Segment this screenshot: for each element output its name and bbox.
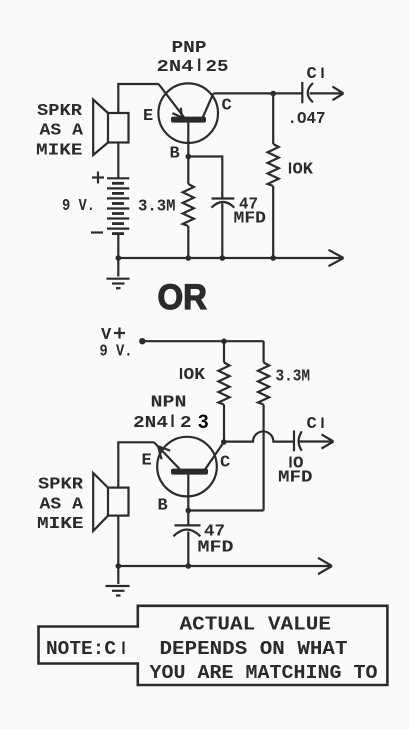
svg-text:OR: OR (158, 278, 208, 317)
wire speaker top to emitter (118, 442, 154, 487)
wire C1 to arrow (bottom output) (300, 440, 333, 442)
label + (battery top) (92, 172, 104, 184)
svg-text:3.3M: 3.3M (138, 198, 176, 217)
speaker SPKR (bottom) (93, 473, 128, 531)
label C1 (top) (307, 65, 323, 84)
ground (top) (107, 258, 130, 288)
transistor Q1 base lead (187, 123, 189, 157)
junction dot 3.3M/rail (186, 255, 192, 261)
wire speaker bottom to battery (117, 143, 119, 179)
svg-text:25: 25 (206, 58, 229, 77)
speaker SPKR (top) (93, 100, 128, 156)
svg-text:MFD: MFD (198, 539, 234, 558)
svg-text:ACTUAL VALUE: ACTUAL VALUE (180, 614, 332, 636)
wire base to 47MFD (187, 511, 189, 526)
svg-text:C: C (307, 415, 317, 434)
svg-text:3.3M: 3.3M (276, 368, 311, 387)
junction dot collector/10K (221, 439, 227, 445)
wire speaker top to emitter corner (118, 84, 158, 113)
svg-text:DEPENDS ON WHAT: DEPENDS ON WHAT (160, 638, 348, 660)
transistor Q2 circle (157, 437, 217, 497)
svg-text:MFD: MFD (278, 469, 313, 488)
resistor 3.3M (bottom) (258, 363, 269, 405)
svg-text:3: 3 (198, 412, 209, 433)
wire C1 to arrow (top output) (310, 92, 343, 94)
svg-text:PNP: PNP (172, 39, 207, 58)
wire base to 3.3M line (188, 509, 263, 511)
arrow (top output) (333, 87, 344, 101)
label V + (101, 326, 125, 345)
junction dot 47MFD/rail (220, 255, 226, 261)
svg-text:NOTE:C: NOTE:C (46, 638, 116, 660)
svg-text:YOU ARE MATCHING TO: YOU ARE MATCHING TO (150, 662, 378, 684)
label NOTE: C1 (46, 638, 124, 660)
ground (bottom) (106, 566, 130, 596)
junction dot battery/rail (116, 255, 122, 261)
transistor Q2 emitter arrow (NPN, points out) (158, 446, 170, 459)
arrow (top rail) (329, 250, 344, 266)
label 10K (bottom) (181, 366, 206, 385)
svg-text:C: C (307, 65, 317, 84)
svg-text:AS A: AS A (40, 122, 84, 141)
wire 10K to rail (272, 186, 274, 258)
arrow (bottom rail) (318, 558, 332, 574)
label - (battery bottom) (91, 231, 103, 233)
resistor 10K (top) (268, 144, 279, 186)
label SPKR AS A MIKE (top) (36, 102, 84, 161)
node V+ dot (139, 338, 145, 344)
junction dot 10K/V+ (221, 338, 227, 344)
transistor Q1 collector lead (203, 94, 214, 119)
arrow (bottom output) (322, 434, 334, 448)
junction dot base node (186, 154, 192, 160)
ground rail (bottom circuit) (118, 565, 331, 567)
svg-text:OK: OK (184, 366, 206, 385)
capacitor C1 (top) (302, 82, 313, 103)
svg-text:C: C (222, 97, 232, 116)
junction dot base node (bottom) (186, 508, 192, 514)
svg-text:NPN: NPN (151, 394, 187, 413)
wire battery to ground rail (117, 234, 119, 258)
wire 3.3M down to base line (crosses collector line) (263, 405, 265, 511)
wire V+ rail (142, 340, 263, 342)
wire collector node with hop over 3.3M line (224, 431, 294, 441)
label C1 (bottom) (307, 415, 323, 434)
svg-text:2N4: 2N4 (133, 414, 168, 433)
svg-text:E: E (143, 107, 153, 126)
svg-text:MFD: MFD (234, 210, 267, 229)
label 2N4125 (157, 58, 229, 77)
resistor 10K (bottom) (218, 363, 229, 405)
svg-text:AS A: AS A (40, 496, 84, 515)
transistor Q2 emitter lead (154, 442, 181, 470)
svg-text:OK: OK (293, 161, 314, 180)
svg-text:B: B (170, 145, 180, 164)
resistor 3.3M (top) (183, 184, 194, 226)
svg-text:SPKR: SPKR (38, 476, 84, 495)
wire 47MFD to rail (187, 532, 189, 567)
capacitor 47 MFD (top) (212, 199, 235, 208)
ground rail (top circuit) (118, 257, 342, 259)
wire V+ to 3.3M (263, 341, 265, 362)
svg-text:9 V.: 9 V. (100, 343, 133, 362)
svg-text:MIKE: MIKE (37, 515, 84, 534)
wire collector to C1 (213, 92, 302, 94)
wire speaker bottom to rail (117, 516, 119, 566)
transistor Q2 collector lead (205, 442, 224, 469)
svg-text:E: E (142, 452, 152, 471)
junction dot 47MFD/rail (186, 563, 192, 569)
svg-text:9 V.: 9 V. (62, 197, 95, 216)
svg-text:SPKR: SPKR (37, 102, 83, 121)
svg-text:C: C (220, 454, 230, 473)
junction dot collector node (270, 91, 276, 97)
transistor Q1 base bar (171, 117, 206, 123)
wire base to 3.3M (187, 157, 189, 185)
svg-text:MIKE: MIKE (36, 142, 83, 161)
capacitor 47 MFD (bottom) (173, 525, 200, 536)
svg-text:.O47: .O47 (288, 110, 326, 129)
label 2N4123 (133, 412, 209, 433)
capacitor C1 (bottom) (294, 431, 302, 452)
transistor Q1 circle (158, 83, 218, 143)
wire 47MFD to rail (221, 204, 223, 259)
note box outline (39, 606, 388, 685)
transistor Q1 emitter arrow (PNP, points into bar) (172, 108, 182, 118)
svg-text:2N4: 2N4 (157, 58, 194, 77)
label 10K (top) (290, 161, 314, 180)
label 10 MFD (278, 455, 313, 488)
junction dot speaker/rail (116, 563, 122, 569)
transistor Q2 base bar (171, 469, 208, 475)
wire 10K to collector node (223, 405, 225, 443)
wire 3.3M to rail (187, 226, 189, 258)
battery B1 9V (107, 178, 129, 233)
label SPKR AS A MIKE (bottom) (37, 476, 84, 535)
wire V+ to 10K (223, 341, 225, 362)
junction dot 10K/rail (270, 255, 276, 261)
svg-text:2: 2 (180, 414, 192, 433)
svg-text:B: B (158, 497, 168, 516)
wire collector node to 10K (272, 94, 274, 145)
wire base junction to 47MFD (188, 157, 222, 199)
transistor Q1 emitter lead (159, 84, 184, 117)
transistor Q2 base lead (187, 475, 189, 511)
